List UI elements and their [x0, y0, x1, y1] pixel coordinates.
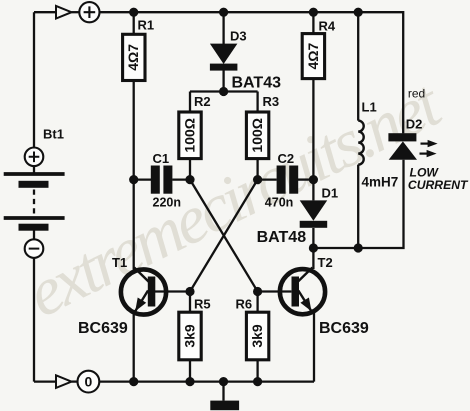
- node R5 bottom: [185, 377, 194, 386]
- inductor L1: [358, 99, 398, 189]
- transistor T2 BC639: [280, 255, 369, 337]
- node C1 right: [185, 175, 194, 184]
- node D3 anode: [219, 87, 228, 96]
- svg-text:red: red: [408, 87, 425, 101]
- svg-text:0: 0: [85, 374, 93, 390]
- wire R2 bottom stub: [189, 159, 191, 180]
- svg-text:Bt1: Bt1: [43, 127, 64, 142]
- svg-text:R4: R4: [319, 18, 336, 33]
- svg-text:R3: R3: [263, 94, 280, 109]
- svg-text:100Ω: 100Ω: [181, 118, 197, 153]
- svg-text:L1: L1: [362, 99, 377, 114]
- wire R2 R3 bridge: [190, 90, 258, 92]
- ground: [210, 382, 239, 411]
- node T2 base: [253, 287, 262, 296]
- svg-text:BAT48: BAT48: [257, 229, 307, 246]
- wire D3 anode to node: [222, 70, 224, 92]
- wire battery dashed center: [33, 190, 35, 215]
- terminal 0 (bottom input): [78, 371, 100, 393]
- LED emission arrows: [421, 143, 430, 145]
- wire D1 cathode to node: [312, 228, 314, 248]
- node D1 cathode: [309, 243, 318, 252]
- wire D3 top stub: [222, 12, 224, 44]
- wire battery internal bottom: [33, 231, 35, 240]
- wire R3 bottom stub: [256, 159, 258, 180]
- capacitor C1: [151, 151, 181, 210]
- node T1 emitter bottom: [129, 377, 138, 386]
- svg-text:220n: 220n: [153, 196, 182, 210]
- wire C2 right lead: [298, 178, 313, 180]
- node C2 left: [253, 175, 262, 184]
- node ground: [219, 377, 228, 386]
- resistor R3: [246, 94, 279, 158]
- wire T2 base lead: [258, 290, 292, 292]
- wire R2 top stub: [189, 92, 191, 113]
- svg-text:100Ω: 100Ω: [249, 118, 265, 153]
- wire C1 right lead: [172, 178, 190, 180]
- battery Bt1: [4, 127, 65, 258]
- svg-text:C2: C2: [278, 151, 295, 166]
- resistor R1: [123, 18, 155, 81]
- svg-text:CURRENT: CURRENT: [408, 178, 469, 192]
- svg-text:3k9: 3k9: [181, 324, 197, 348]
- wire R5 top stub: [189, 292, 191, 313]
- wire cross coupling C1 to T2 base: [190, 180, 258, 292]
- diode D3 BAT43: [210, 29, 281, 92]
- svg-text:BAT43: BAT43: [232, 74, 282, 91]
- wire right bottom bus: [313, 160, 403, 248]
- wire R1 top stub: [133, 12, 135, 34]
- node R1 top: [129, 8, 138, 17]
- terminal plus (top input): [79, 2, 99, 22]
- node L1 bottom: [354, 243, 363, 252]
- wire left column bottom (battery minus lead): [33, 258, 35, 382]
- wire bottom rail: [34, 380, 56, 382]
- node R4 top: [309, 8, 318, 17]
- svg-text:470n: 470n: [265, 196, 294, 210]
- terminal arrow bottom: [56, 375, 72, 388]
- wire T2 emitter to bottom rail: [313, 310, 315, 382]
- wire T1 base lead: [155, 290, 190, 292]
- svg-text:BC639: BC639: [78, 320, 128, 337]
- wire R4 top stub: [312, 12, 314, 33]
- wire C1 left lead: [134, 178, 151, 180]
- resistor R6: [236, 297, 269, 360]
- capacitor C2: [265, 151, 298, 210]
- node D3 top: [219, 8, 228, 17]
- svg-text:C1: C1: [153, 151, 170, 166]
- svg-text:T2: T2: [318, 255, 333, 270]
- wire left column top (battery plus lead): [33, 12, 35, 147]
- resistor R5: [179, 297, 211, 360]
- wire cross coupling C2 to T1 base: [190, 180, 258, 292]
- watermark extremecircuits.net: [15, 64, 454, 332]
- wire C2 left lead: [258, 178, 277, 180]
- wire L1 top stub: [357, 12, 359, 120]
- svg-text:D2: D2: [406, 117, 423, 132]
- svg-text:4mH7: 4mH7: [362, 175, 399, 190]
- wire top rail: [34, 11, 56, 13]
- node C1 left: [129, 175, 138, 184]
- node R6 bottom: [253, 377, 262, 386]
- terminal arrow top: [56, 6, 72, 19]
- node L1 top: [354, 8, 363, 17]
- node C2 right: [309, 175, 318, 184]
- svg-text:4Ω7: 4Ω7: [305, 42, 321, 69]
- transistor T1 BC639: [78, 255, 166, 337]
- wire T2 collector stub: [312, 248, 314, 269]
- diode D1 BAT48: [257, 185, 339, 246]
- LED D2 red: [388, 87, 469, 192]
- svg-text:BC639: BC639: [319, 320, 369, 337]
- wire R1 to C1 to T1 collector: [133, 81, 135, 270]
- wire R6 bottom stub: [256, 360, 258, 382]
- svg-text:R2: R2: [194, 94, 211, 109]
- svg-text:3k9: 3k9: [249, 324, 265, 348]
- svg-text:T1: T1: [112, 255, 127, 270]
- svg-text:R1: R1: [138, 18, 155, 33]
- svg-text:4Ω7: 4Ω7: [125, 44, 141, 71]
- wire R3 top stub: [256, 92, 258, 113]
- svg-text:D1: D1: [322, 185, 339, 200]
- wire R5 bottom stub: [189, 360, 191, 382]
- node T1 base: [185, 287, 194, 296]
- resistor R2: [179, 94, 211, 158]
- resistor R4: [302, 18, 336, 78]
- wire L1 bottom stub: [357, 165, 359, 248]
- wire R4 bottom to D1: [312, 79, 314, 201]
- svg-text:R5: R5: [194, 297, 211, 312]
- wire R6 top stub: [256, 292, 258, 313]
- wire T1 emitter to bottom rail: [133, 310, 135, 382]
- svg-text:R6: R6: [236, 297, 253, 312]
- wire battery internal top: [33, 166, 35, 173]
- svg-text:D3: D3: [230, 29, 247, 44]
